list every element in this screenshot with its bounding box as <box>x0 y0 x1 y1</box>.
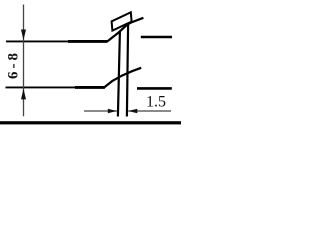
contact pad (tilted parallelogram) on upper arm <box>112 12 132 30</box>
svg-text:1.5: 1.5 <box>146 93 166 110</box>
dimension: vertical 6-8 line <box>23 5 25 117</box>
bottom border rule <box>0 121 181 124</box>
wire: upper contact arm diagonal <box>107 18 143 42</box>
dimension arrow down at top wire <box>21 30 26 41</box>
wire: bottom-left conductor <box>6 86 76 88</box>
dimension arrow left-pointing <box>128 109 137 114</box>
dimension: 1.5 horizontal line left part <box>84 110 117 112</box>
wire: bottom-right conductor <box>137 87 172 90</box>
wire: top-right conductor <box>141 36 172 39</box>
dimension arrow right-pointing <box>108 109 117 114</box>
svg-text:6-8: 6-8 <box>6 50 22 79</box>
wire: lower contact arm diagonal <box>104 68 141 88</box>
dimension: 1.5 horizontal line right part <box>128 110 171 112</box>
wire: top-left conductor <box>6 40 68 42</box>
blade line left (gauge) <box>118 32 120 117</box>
dimension arrow up at bottom wire <box>21 89 26 100</box>
blade line right (gauge) <box>127 25 128 117</box>
